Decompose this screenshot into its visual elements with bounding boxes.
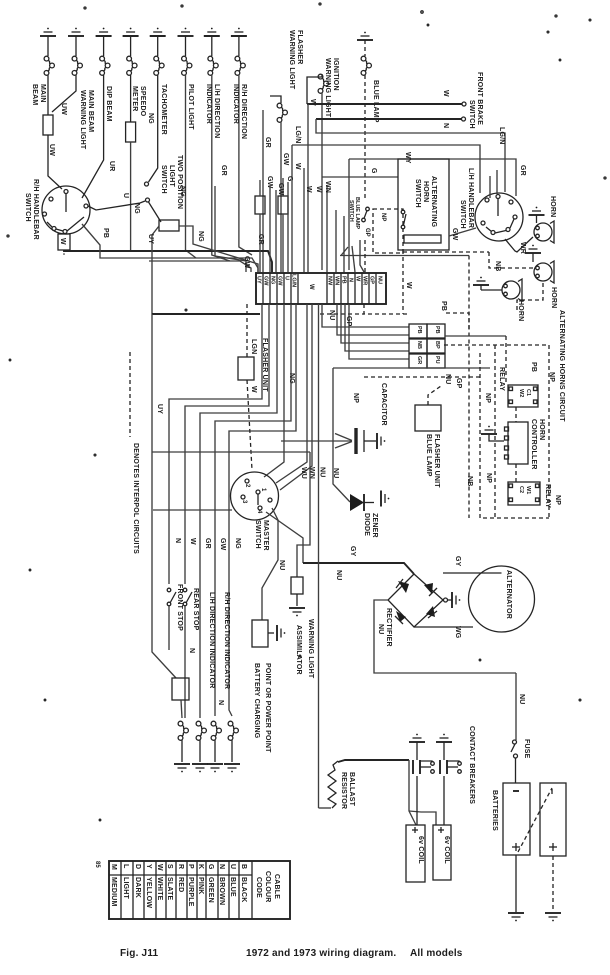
svg-text:HORN: HORN <box>517 300 524 321</box>
6v coil 1 <box>406 825 425 882</box>
zener diode <box>333 448 350 502</box>
svg-text:UY: UY <box>256 276 262 284</box>
svg-text:PB: PB <box>440 301 447 311</box>
alternating horn switch contacts <box>401 210 405 214</box>
inline connector GW left <box>255 196 265 214</box>
svg-text:W: W <box>294 163 301 170</box>
ground (speedo) <box>123 28 139 36</box>
svg-text:SWITCH: SWITCH <box>24 193 31 222</box>
svg-text:NU: NU <box>335 570 342 581</box>
svg-text:CAPACITOR: CAPACITOR <box>380 383 387 426</box>
bus into master switch <box>152 451 310 453</box>
svg-text:C1: C1 <box>525 389 531 396</box>
pilot light lamp <box>182 36 196 258</box>
relay 2 <box>508 482 540 505</box>
svg-text:PB: PB <box>102 228 109 238</box>
svg-text:W: W <box>315 186 322 193</box>
svg-text:SWITCH: SWITCH <box>254 520 261 549</box>
L/H direction indicator lamp <box>208 36 230 261</box>
svg-text:INDICATOR: INDICATOR <box>232 84 239 124</box>
warning light assimilator resistor <box>291 577 303 594</box>
svg-text:WARNING LIGHT: WARNING LIGHT <box>79 90 86 150</box>
svg-text:INDICATOR: INDICATOR <box>205 84 212 124</box>
master switch body <box>231 472 279 520</box>
inline connector GW right <box>278 196 288 214</box>
UY long wire <box>151 314 153 452</box>
svg-text:GY: GY <box>349 546 356 557</box>
junction blocks <box>409 324 445 368</box>
svg-text:TACHOMETER: TACHOMETER <box>160 84 167 135</box>
dashed interpol drop through strip <box>364 240 366 272</box>
relay1 to controller dashed <box>515 407 517 422</box>
svg-text:WY: WY <box>404 152 411 164</box>
svg-text:NU: NU <box>278 560 285 571</box>
svg-text:PURPLE: PURPLE <box>187 877 194 907</box>
svg-text:GP: GP <box>364 228 370 237</box>
tachometer lamp <box>149 36 165 182</box>
horn 2 <box>534 261 554 283</box>
big dashed box (alternating horns circuit) <box>480 353 549 518</box>
grounds (rear lamps) <box>174 764 190 772</box>
svg-text:NB: NB <box>494 261 501 272</box>
svg-text:GW: GW <box>263 276 269 286</box>
svg-text:GR: GR <box>257 234 264 245</box>
svg-text:UR: UR <box>108 161 115 172</box>
horn 3 <box>502 279 522 301</box>
wire WY loop <box>292 145 480 193</box>
svg-text:NG: NG <box>288 373 295 384</box>
horn controller <box>508 422 528 464</box>
svg-text:NU: NU <box>319 467 326 478</box>
svg-text:W: W <box>308 284 314 290</box>
svg-text:PINK: PINK <box>197 877 204 895</box>
NU / GP wires from capacitor junction <box>333 367 490 369</box>
wire G to alternating horn switch <box>322 176 398 178</box>
main beam lamp MB <box>44 36 54 115</box>
svg-text:C2: C2 <box>518 486 524 493</box>
svg-text:DENOTES INTERPOL CIRCUITS: DENOTES INTERPOL CIRCUITS <box>132 443 139 554</box>
svg-text:NP: NP <box>548 372 555 382</box>
svg-text:CABLE: CABLE <box>273 874 280 899</box>
svg-text:SWITCH: SWITCH <box>160 165 167 194</box>
svg-text:LG/N: LG/N <box>291 274 297 287</box>
svg-text:GP: GP <box>369 276 375 284</box>
rectifier bridge <box>388 574 443 627</box>
wire GY from master switch <box>266 512 303 563</box>
svg-text:NP: NP <box>554 495 561 505</box>
svg-text:BATTERY CHARGING: BATTERY CHARGING <box>253 663 260 739</box>
contact breaker 1 <box>413 742 434 825</box>
solid W feed line right of strip <box>340 255 469 257</box>
NU wire from rectifier <box>374 600 516 673</box>
svg-text:BLUE LAMP: BLUE LAMP <box>372 80 379 123</box>
wire GW from L/H switch to left <box>449 228 476 236</box>
wires into L/H switch top <box>489 176 491 198</box>
svg-text:L: L <box>122 864 129 869</box>
svg-text:85: 85 <box>94 861 100 868</box>
svg-text:FRONT STOP: FRONT STOP <box>176 584 183 631</box>
ground (tachometer) <box>150 28 166 36</box>
svg-text:W: W <box>305 186 312 193</box>
svg-text:NU: NU <box>377 276 383 284</box>
blue lamp (interpol, dashed) <box>361 40 371 198</box>
svg-text:GW: GW <box>277 183 284 196</box>
svg-text:GR: GR <box>264 137 271 148</box>
svg-text:DIP BEAM: DIP BEAM <box>105 86 112 122</box>
svg-text:RELAY: RELAY <box>498 367 505 391</box>
svg-text:GW: GW <box>277 276 283 286</box>
assimilator feed <box>297 452 310 577</box>
relay 1 <box>508 385 538 407</box>
svg-text:WHITE: WHITE <box>156 877 163 901</box>
two position light switch resistor box <box>159 220 179 231</box>
svg-text:RED: RED <box>177 877 184 892</box>
ground (horn 2) <box>525 245 541 253</box>
two position light switch contacts <box>145 182 149 186</box>
wire GR loop to L/H switch <box>349 159 516 196</box>
svg-text:BLUE LAMP: BLUE LAMP <box>425 434 432 477</box>
svg-text:W2: W2 <box>518 389 524 397</box>
svg-text:G: G <box>370 168 377 174</box>
rear/front stop switches <box>167 588 171 592</box>
svg-text:HORN: HORN <box>422 181 429 202</box>
svg-text:GW: GW <box>282 153 289 166</box>
svg-text:ALTERNATING HORNS CIRCUIT: ALTERNATING HORNS CIRCUIT <box>558 310 565 422</box>
svg-text:All models: All models <box>410 948 463 959</box>
svg-text:REAR STOP: REAR STOP <box>192 588 199 631</box>
svg-text:W: W <box>442 90 449 97</box>
svg-text:LG/N: LG/N <box>294 126 301 144</box>
svg-text:BLACK: BLACK <box>240 877 247 903</box>
svg-text:M: M <box>110 864 117 870</box>
R/H direction indicator lamp <box>235 36 252 255</box>
svg-text:N: N <box>188 648 195 653</box>
drops W/WU/WN/NU below strip <box>306 304 308 441</box>
svg-text:S: S <box>166 864 173 869</box>
svg-text:Fig. J11: Fig. J11 <box>120 948 159 959</box>
svg-text:W: W <box>405 282 412 289</box>
svg-text:NU: NU <box>444 374 451 385</box>
svg-text:GW: GW <box>219 538 226 551</box>
svg-text:NP: NP <box>352 393 359 403</box>
svg-text:MAIN BEAM: MAIN BEAM <box>87 90 94 132</box>
svg-text:PB: PB <box>434 326 440 334</box>
svg-text:LIGHT: LIGHT <box>122 877 129 900</box>
wire W from R/H switch bottom <box>63 233 65 234</box>
dashed PB link <box>446 313 469 330</box>
svg-text:FLASHER: FLASHER <box>296 30 303 64</box>
svg-text:GR: GR <box>220 165 227 176</box>
svg-text:WN: WN <box>334 276 340 285</box>
fuse <box>513 740 517 744</box>
ground (horn controller) <box>481 426 497 434</box>
svg-text:U: U <box>284 276 290 280</box>
svg-text:R/H DIRECTION: R/H DIRECTION <box>240 84 247 139</box>
dashed flasher to master switch <box>247 380 252 470</box>
svg-text:NP: NP <box>485 473 492 483</box>
svg-text:BATTERIES: BATTERIES <box>491 790 498 831</box>
ballast feed resistor box <box>172 678 189 700</box>
speedometer lamp <box>127 36 137 122</box>
svg-text:YELLOW: YELLOW <box>145 877 152 908</box>
svg-text:HORN: HORN <box>550 287 557 308</box>
svg-text:L/H HANDLEBAR: L/H HANDLEBAR <box>467 168 474 228</box>
svg-text:POINT OR POWER POINT: POINT OR POWER POINT <box>264 663 271 753</box>
ballast resistor <box>319 807 332 809</box>
svg-text:N: N <box>442 123 449 128</box>
svg-text:GW: GW <box>243 256 250 269</box>
alternator <box>469 566 535 632</box>
L/H handlebar switch body <box>475 193 523 241</box>
UY wire to resistor box <box>152 510 176 678</box>
svg-text:LGN: LGN <box>250 339 257 354</box>
svg-text:LIGHT: LIGHT <box>168 165 175 188</box>
svg-text:P: P <box>187 864 194 869</box>
wire WR from L/H switch to horn 1 <box>505 237 533 252</box>
svg-text:BEAM: BEAM <box>31 84 38 105</box>
svg-text:N: N <box>348 278 354 282</box>
solid PB feed to relay 1 <box>445 335 506 337</box>
wire GW bus into strip <box>149 261 251 272</box>
svg-text:FRONT BRAKE: FRONT BRAKE <box>476 72 483 125</box>
svg-text:FUSE: FUSE <box>523 739 530 759</box>
svg-text:MEDIUM: MEDIUM <box>110 877 117 907</box>
svg-text:SLATE: SLATE <box>166 877 173 901</box>
connector on main beam wire <box>43 115 53 135</box>
ground (pilot light) <box>178 28 194 36</box>
svg-text:BALLAST: BALLAST <box>348 772 355 807</box>
svg-text:WR: WR <box>362 276 368 285</box>
ground (contact breaker 2) <box>436 734 452 742</box>
svg-text:CONTACT BREAKERS: CONTACT BREAKERS <box>468 726 475 804</box>
wire GR down to strip <box>262 110 264 272</box>
svg-text:NG: NG <box>197 231 204 242</box>
svg-text:CODE: CODE <box>255 877 262 898</box>
battery 1 <box>503 783 530 855</box>
svg-text:PU: PU <box>434 356 440 364</box>
dip beam lamp <box>82 36 110 198</box>
svg-text:HORN: HORN <box>549 196 556 217</box>
NB dashed wire to horn 2 <box>403 251 489 253</box>
svg-text:BP: BP <box>434 341 440 349</box>
svg-text:NG: NG <box>133 203 140 214</box>
flasher unit dashed feed <box>246 304 248 357</box>
svg-text:SWITCH: SWITCH <box>348 200 354 222</box>
connector on speedo wire <box>126 122 136 142</box>
svg-text:R: R <box>177 864 184 869</box>
horizontals to junction blocks <box>322 304 409 327</box>
svg-text:GR: GR <box>519 165 526 176</box>
wire PB from R/H switch <box>82 224 258 272</box>
svg-text:6v COIL: 6v COIL <box>443 836 450 864</box>
alternating horn switch box <box>398 159 449 250</box>
battery charging point connector <box>252 620 268 647</box>
bundle verticals <box>269 186 271 272</box>
svg-text:N: N <box>217 700 224 705</box>
svg-text:UY: UY <box>147 234 154 244</box>
svg-text:NU: NU <box>328 310 335 321</box>
svg-text:ZENER: ZENER <box>371 513 378 538</box>
ground (blue lamp) <box>357 32 373 40</box>
svg-text:NP: NP <box>484 393 491 403</box>
wire main beam to R/H switch <box>48 135 62 189</box>
svg-text:W: W <box>156 864 163 871</box>
svg-text:NG: NG <box>234 538 241 549</box>
svg-text:UY: UY <box>156 404 163 414</box>
svg-text:PB: PB <box>341 276 347 284</box>
contact breaker 2 <box>440 742 461 825</box>
feed to coils <box>409 760 416 825</box>
svg-text:U: U <box>229 864 236 869</box>
svg-text:ALTERNATOR: ALTERNATOR <box>505 570 512 619</box>
svg-text:WN: WN <box>308 467 315 479</box>
svg-text:W: W <box>189 538 196 545</box>
wire NG from switch box to strip <box>179 226 258 272</box>
svg-text:U: U <box>122 193 129 198</box>
svg-text:WR: WR <box>519 242 526 254</box>
ground (assimilator) <box>289 608 305 616</box>
svg-text:W: W <box>250 386 257 393</box>
svg-text:WU: WU <box>300 467 307 479</box>
svg-text:NP: NP <box>380 213 386 221</box>
flasher warning light lamp <box>270 96 287 272</box>
thick bus y315 <box>152 313 260 315</box>
svg-text:W: W <box>59 238 66 245</box>
NG wire to master switch <box>264 304 284 477</box>
svg-text:6v COIL: 6v COIL <box>417 836 424 864</box>
svg-text:D: D <box>134 864 141 869</box>
svg-text:COLOUR: COLOUR <box>264 871 271 903</box>
svg-text:L/H DIRECTION INDICATOR: L/H DIRECTION INDICATOR <box>208 592 215 689</box>
svg-text:WARNING LIGHT: WARNING LIGHT <box>288 30 295 90</box>
wire U from R/H switch to two position light switch <box>88 201 145 210</box>
svg-text:DARK: DARK <box>134 877 141 898</box>
ground (main beam lamp) <box>40 28 56 36</box>
wire NU from master switch to charging point <box>262 508 278 620</box>
svg-text:GP: GP <box>345 316 352 327</box>
ground (horn 3) <box>473 277 489 285</box>
svg-text:NG: NG <box>147 113 154 124</box>
svg-text:GW: GW <box>451 228 458 241</box>
svg-text:W: W <box>355 276 361 282</box>
front brake switch <box>307 102 466 121</box>
svg-text:N: N <box>218 864 225 869</box>
svg-text:ALTERNATING: ALTERNATING <box>430 176 437 228</box>
svg-text:G: G <box>286 176 293 182</box>
ground (dip beam) <box>96 28 112 36</box>
ignition warning light lamp <box>307 74 328 177</box>
svg-text:WARNING LIGHT: WARNING LIGHT <box>307 619 314 679</box>
svg-text:RELAY: RELAY <box>544 484 551 508</box>
svg-text:NB: NB <box>416 341 422 349</box>
GY line <box>303 563 414 574</box>
ground (contact breaker 1) <box>409 734 425 742</box>
svg-text:LG/N: LG/N <box>498 127 505 145</box>
svg-text:DIODE: DIODE <box>363 513 370 536</box>
ground (L/H direction indicator) <box>204 28 220 36</box>
wire UY from switch box <box>152 226 159 314</box>
main beam warning light lamp <box>52 36 82 112</box>
svg-text:NW: NW <box>327 276 333 286</box>
capacitor junction <box>332 368 334 441</box>
battery 2 (interpol) <box>540 783 566 856</box>
svg-text:WG: WG <box>454 626 461 639</box>
svg-text:MASTER: MASTER <box>262 520 269 551</box>
svg-text:GY: GY <box>454 556 461 567</box>
svg-text:W1: W1 <box>525 486 531 494</box>
svg-text:L/H DIRECTION: L/H DIRECTION <box>213 84 220 138</box>
svg-text:ASSIMILATOR: ASSIMILATOR <box>295 625 302 675</box>
svg-text:CONTROLLER: CONTROLLER <box>530 419 537 470</box>
svg-text:TWO POSITION: TWO POSITION <box>176 155 183 209</box>
svg-text:SWITCH: SWITCH <box>414 179 421 208</box>
blue lamp switch (interpol) <box>373 209 403 253</box>
svg-text:GP: GP <box>455 378 462 389</box>
svg-text:G: G <box>207 864 214 870</box>
svg-text:MAIN: MAIN <box>39 84 46 103</box>
svg-text:N: N <box>174 538 181 543</box>
dashed drop from horn2 to horns circuit <box>517 283 543 313</box>
svg-text:RECTIFIER: RECTIFIER <box>385 608 392 647</box>
svg-text:R/H DIRECTION INDICATOR: R/H DIRECTION INDICATOR <box>223 592 230 689</box>
staircase wires <box>169 304 262 584</box>
capacitor <box>281 440 352 442</box>
wire GR from L/H direction column <box>215 186 246 272</box>
rear lamp bulbs <box>178 721 188 740</box>
svg-text:FLASHER UNIT: FLASHER UNIT <box>261 338 268 392</box>
NU vertical from master area down to ballast <box>318 441 320 808</box>
svg-text:WARNING LIGHT: WARNING LIGHT <box>324 58 331 118</box>
diagonal feeds into strip right <box>360 240 364 272</box>
svg-text:NU: NU <box>518 694 525 705</box>
wire N/LG-N loop from brake switch to L/H switch <box>316 119 505 192</box>
svg-text:1972 and 1973 wiring diagram.: 1972 and 1973 wiring diagram. <box>246 948 396 959</box>
svg-text:SPEEDO: SPEEDO <box>139 86 146 117</box>
svg-text:BROWN: BROWN <box>218 877 225 905</box>
ground (R/H direction indicator) <box>231 28 247 36</box>
blue lamp flasher unit <box>415 405 441 431</box>
horn 1 <box>534 221 554 243</box>
svg-text:K: K <box>197 864 204 869</box>
controller to relay 2 dashed <box>515 464 517 482</box>
svg-text:BLUE: BLUE <box>229 877 236 897</box>
svg-text:NU: NU <box>377 624 384 635</box>
ground (main beam warning light) <box>68 28 84 36</box>
svg-text:SWITCH: SWITCH <box>459 200 466 229</box>
svg-text:NB: NB <box>466 476 473 487</box>
svg-text:NG: NG <box>270 276 276 284</box>
connector strip box <box>256 273 386 304</box>
R/H handlebar switch body <box>42 186 90 234</box>
svg-text:Y: Y <box>145 864 152 869</box>
svg-text:PILOT LIGHT: PILOT LIGHT <box>187 84 194 130</box>
ground (horn 1) <box>529 207 545 215</box>
svg-text:PB: PB <box>530 362 537 372</box>
svg-text:IGNITION: IGNITION <box>332 58 339 91</box>
svg-text:WN: WN <box>324 181 331 193</box>
dashed NP bus <box>444 345 549 518</box>
svg-text:FLASHER UNIT: FLASHER UNIT <box>433 434 440 488</box>
svg-text:HORN: HORN <box>538 419 545 440</box>
svg-text:GREEN: GREEN <box>207 877 214 903</box>
svg-text:PB: PB <box>416 326 422 334</box>
svg-text:METER: METER <box>131 86 138 112</box>
flasher unit <box>238 357 254 380</box>
svg-text:NU: NU <box>332 468 339 479</box>
svg-text:B: B <box>240 864 247 869</box>
WU WN wires into master switch <box>276 441 307 483</box>
svg-text:GR: GR <box>204 538 211 549</box>
